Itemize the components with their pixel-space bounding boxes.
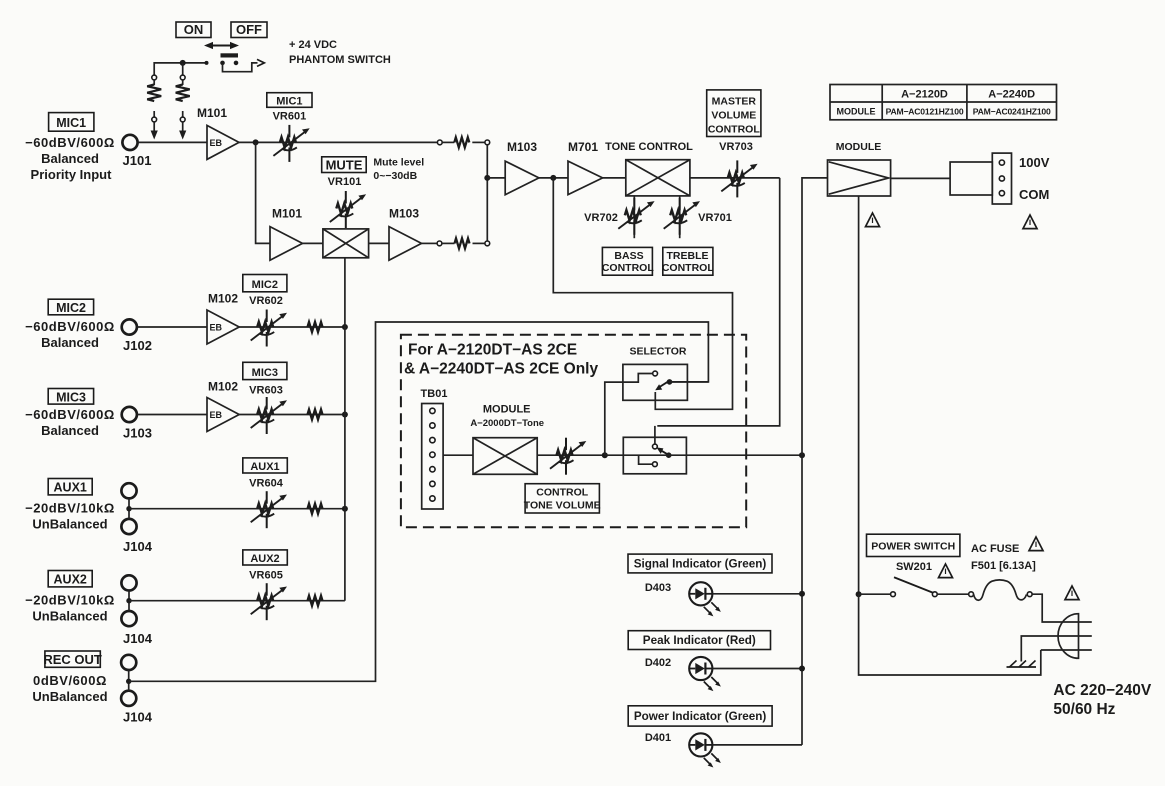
REC OUT spec text: [32, 673, 107, 704]
resistor phantom R1: [147, 75, 161, 122]
wire LED bus: [801, 455, 803, 745]
CONTROL TONE VOLUME label box: [524, 484, 601, 513]
AC voltage label: [1053, 682, 1151, 718]
wire tone stub VR701: [679, 196, 681, 238]
MASTER VOLUME CONTROL label box: [707, 90, 761, 137]
svg-text:D403: D403: [645, 582, 671, 594]
svg-text:J103: J103: [123, 426, 152, 441]
arrow phantom R2 to MIC1 line: [179, 122, 186, 140]
wire module input riser: [802, 178, 828, 455]
AC plug body: [1058, 614, 1079, 659]
wire MUTE to M103: [369, 242, 389, 244]
wire mix bus vertical: [344, 258, 346, 601]
selector upper switch box: [623, 364, 688, 400]
resistor AUX1: [308, 504, 323, 514]
phantom switch contact dots: [220, 61, 238, 66]
op-amp M103 lower: [389, 227, 422, 261]
Signal Indicator label box: [628, 554, 772, 573]
wire resistor R2 drop: [182, 63, 184, 77]
wire tone module to pot: [537, 454, 605, 456]
resistor lower rail: [455, 238, 470, 248]
svg-text:Priority Input: Priority Input: [31, 167, 113, 182]
svg-text:Power Indicator (Green): Power Indicator (Green): [634, 710, 767, 723]
svg-text:MIC3: MIC3: [252, 367, 278, 379]
selector upper arm: [655, 381, 668, 390]
junction AC line: [856, 591, 862, 597]
resistor top rail: [454, 137, 469, 147]
svg-text:AUX2: AUX2: [250, 553, 279, 565]
wire J103 to M102: [137, 414, 207, 416]
MUTE label box: [322, 157, 367, 173]
svg-text:A−2000DT−Tone: A−2000DT−Tone: [470, 418, 544, 429]
svg-text:CONTROL: CONTROL: [602, 262, 654, 274]
node top rail resistor left: [437, 140, 442, 145]
svg-text:−20dBV/10kΩ: −20dBV/10kΩ: [25, 593, 115, 608]
switch SW201 arm: [894, 577, 933, 593]
svg-text:Mute level: Mute level: [373, 157, 424, 169]
junction merge to M103: [484, 175, 490, 181]
speaker connector box: [950, 162, 992, 195]
selector upper contact A: [653, 371, 658, 376]
svg-text:TONE VOLUME: TONE VOLUME: [524, 499, 601, 511]
svg-text:VR703: VR703: [719, 141, 753, 153]
ON label box: [176, 22, 211, 38]
wire merge bar: [486, 145, 488, 241]
AUX1 spec text: [25, 501, 115, 532]
potentiometer VR601: [273, 125, 309, 162]
arrow phantom R1 to MIC1 line: [151, 122, 158, 140]
node switch left: [891, 592, 896, 597]
POWER SWITCH label box: [867, 534, 960, 556]
wire AC line segment 1: [859, 593, 891, 595]
svg-text:VR604: VR604: [249, 477, 284, 489]
AUX1 VR604 label box: [243, 458, 287, 473]
AUX1 label box: [48, 479, 92, 495]
op-amp M102 EB: [207, 310, 239, 344]
potentiometer VR603: [251, 397, 287, 434]
wire M101 node down to lower path: [256, 142, 270, 243]
svg-text:TONE CONTROL: TONE CONTROL: [605, 141, 693, 153]
wire top rail resistor out: [472, 141, 485, 143]
TREBLE CONTROL label box: [662, 247, 714, 275]
wire tone stub VR702: [633, 196, 635, 238]
svg-text:OFF: OFF: [236, 22, 262, 37]
phantom switch actuator wire with arrow: [223, 59, 265, 71]
wire merge to M103: [487, 177, 505, 179]
svg-text:VOLUME: VOLUME: [711, 109, 756, 121]
svg-text:AUX1: AUX1: [250, 461, 279, 473]
wire TB01 to tone module: [443, 454, 473, 456]
wire fuse to plug: [1032, 594, 1092, 622]
warning fuse: [1029, 537, 1043, 551]
svg-text:100V: 100V: [1019, 155, 1050, 170]
wire M103 to M701: [539, 177, 568, 179]
svg-text:M701: M701: [568, 140, 598, 154]
junction node after M101: [253, 139, 259, 145]
AUX2 spec text: [25, 593, 115, 624]
junction AUX1 bus: [342, 506, 348, 512]
svg-text:BASS: BASS: [614, 250, 643, 262]
terminal block TB01: [422, 404, 443, 510]
node fuse right: [1027, 592, 1032, 597]
svg-text:AC 220−240V: AC 220−240V: [1053, 682, 1151, 699]
selector lower contact A riser: [653, 426, 658, 449]
svg-text:PHANTOM SWITCH: PHANTOM SWITCH: [289, 54, 391, 66]
wire D401 to bus: [712, 744, 802, 746]
node switch right: [932, 592, 937, 597]
junction MIC3 bus: [342, 412, 348, 418]
wire AC line segment 2: [937, 593, 969, 595]
wire tone out to upper selector: [605, 374, 653, 456]
resistor MIC3: [308, 410, 323, 420]
svg-text:Balanced: Balanced: [41, 423, 99, 438]
op-amp M701: [568, 161, 603, 195]
plug prong bottom: [1041, 649, 1092, 651]
op-amp M103 main: [505, 161, 539, 195]
jack J104 aux1: [121, 483, 136, 534]
MIC1 spec text: [25, 135, 115, 182]
potentiometer VR701: [664, 198, 700, 235]
wire J101 to M101: [138, 141, 207, 143]
svg-text:VR702: VR702: [584, 212, 618, 224]
selector lower pivot: [666, 452, 672, 458]
svg-text:MODULE: MODULE: [483, 404, 531, 416]
terminal dot phantom wire: [205, 61, 209, 65]
warning module: [866, 213, 880, 227]
svg-text:ON: ON: [184, 22, 204, 37]
svg-text:AUX2: AUX2: [54, 573, 87, 587]
MIC1 VR601 label box: [267, 93, 312, 108]
svg-text:MIC3: MIC3: [56, 390, 86, 404]
warning output: [1023, 215, 1037, 229]
MIC2 label box: [48, 299, 93, 315]
REC OUT label box: [43, 651, 102, 667]
svg-text:M102: M102: [208, 380, 238, 394]
wire AUX1 to bus: [129, 508, 345, 510]
OFF label box: [231, 22, 267, 38]
wire main out through selector: [605, 454, 802, 456]
svg-text:REC OUT: REC OUT: [43, 652, 102, 667]
svg-text:MIC1: MIC1: [56, 116, 86, 130]
svg-text:J101: J101: [123, 153, 152, 168]
svg-text:PAM−AC0241HZ100: PAM−AC0241HZ100: [973, 107, 1051, 117]
LED D403: [689, 582, 721, 616]
plug prong mid: [1021, 636, 1092, 662]
potentiometer tone volume: [550, 438, 586, 475]
svg-text:AC FUSE: AC FUSE: [971, 543, 1019, 555]
wire module ground drop: [858, 196, 860, 594]
warning plug: [1065, 586, 1079, 600]
svg-text:50/60 Hz: 50/60 Hz: [1053, 701, 1115, 718]
svg-text:F501 [6.13A]: F501 [6.13A]: [971, 560, 1036, 572]
jack J104 rec: [121, 655, 136, 706]
potentiometer VR101: [330, 191, 366, 228]
svg-text:SW201: SW201: [896, 561, 932, 573]
svg-text:CONTROL: CONTROL: [708, 123, 760, 135]
svg-text:EB: EB: [210, 323, 223, 333]
wire M102 mic3 out to bus: [239, 414, 345, 416]
resistor AUX2: [308, 596, 323, 606]
selector lower contact B: [653, 462, 658, 467]
svg-text:CONTROL: CONTROL: [662, 262, 714, 274]
junction node M701 input: [550, 175, 556, 181]
svg-text:MUTE: MUTE: [326, 158, 363, 173]
wire AC return: [859, 594, 1041, 675]
LED D401: [689, 733, 721, 767]
svg-text:VR101: VR101: [328, 176, 362, 188]
BASS CONTROL label box: [602, 247, 654, 275]
svg-text:−20dBV/10kΩ: −20dBV/10kΩ: [25, 501, 115, 516]
fuse F501: [974, 580, 1027, 600]
svg-text:A−2120D: A−2120D: [901, 89, 948, 101]
svg-text:UnBalanced: UnBalanced: [32, 517, 107, 532]
potentiometer VR602: [251, 310, 287, 347]
warning sw201: [939, 564, 953, 578]
selector lower switch box: [623, 437, 686, 474]
junction D402 bus: [799, 666, 805, 672]
wire M701 to tone control: [603, 177, 626, 179]
svg-text:J104: J104: [123, 631, 153, 646]
svg-text:UnBalanced: UnBalanced: [32, 609, 107, 624]
Mute level note: [373, 157, 424, 183]
potentiometer VR703: [721, 160, 757, 197]
MIC3 spec text: [25, 407, 115, 438]
wire M102 out to bus: [239, 326, 345, 328]
selector upper pivot: [667, 379, 673, 385]
wire M701 junction loop to selector contact: [553, 178, 732, 409]
op-amp M101 EB preamp: [207, 125, 239, 159]
wire AUX2 to bus: [129, 600, 345, 602]
Power Indicator label box: [628, 706, 772, 726]
svg-text:PAM−AC0121HZ100: PAM−AC0121HZ100: [886, 107, 964, 117]
module A-2000DT-Tone box: [473, 438, 537, 475]
svg-text:−60dBV/600Ω: −60dBV/600Ω: [25, 407, 115, 422]
svg-text:VR603: VR603: [249, 385, 283, 397]
svg-text:MIC2: MIC2: [56, 301, 86, 315]
wire REC OUT to selector: [129, 322, 709, 681]
wire VR703 down to selector: [657, 178, 779, 426]
wire tone control to VR703: [690, 177, 780, 179]
power module box: [828, 160, 891, 196]
model table: [830, 85, 1057, 120]
svg-text:MASTER: MASTER: [712, 95, 757, 107]
double arrow between ON and OFF: [204, 42, 239, 49]
wire M101 out to VR601 and beyond: [239, 141, 438, 143]
svg-text:MODULE: MODULE: [836, 141, 882, 153]
selector lower arm: [656, 447, 667, 454]
node fuse left: [969, 592, 974, 597]
svg-text:EB: EB: [210, 138, 223, 148]
wire module to speaker connector: [891, 177, 951, 179]
LED D402: [689, 657, 721, 691]
wire lower rail: [442, 242, 455, 244]
svg-text:−60dBV/600Ω: −60dBV/600Ω: [25, 135, 115, 150]
svg-text:Balanced: Balanced: [41, 335, 99, 350]
ground symbol: [1007, 661, 1037, 668]
wire M103 out: [422, 242, 438, 244]
AUX2 label box: [48, 571, 92, 587]
wire top rail into resistor: [442, 141, 454, 143]
junction MIC2 bus: [342, 324, 348, 330]
svg-text:A−2240D: A−2240D: [988, 89, 1035, 101]
svg-text:+ 24 VDC: + 24 VDC: [289, 39, 337, 51]
wire phantom feed: [154, 63, 205, 77]
wire D402 to bus: [712, 668, 802, 670]
jack J103: [122, 407, 137, 422]
TONE CONTROL attenuator box: [626, 160, 690, 196]
op-amp M102 EB mic3: [207, 398, 239, 432]
svg-text:CONTROL: CONTROL: [536, 487, 588, 499]
junction phantom wire: [180, 60, 186, 66]
potentiometer VR605: [251, 583, 287, 620]
svg-text:M103: M103: [389, 207, 419, 221]
wire upper pivot to REC line: [670, 381, 709, 383]
Peak Indicator label box: [628, 631, 770, 650]
svg-text:SELECTOR: SELECTOR: [630, 346, 687, 358]
svg-text:Peak Indicator (Red): Peak Indicator (Red): [643, 634, 756, 647]
svg-text:M102: M102: [208, 292, 238, 306]
svg-text:M101: M101: [197, 106, 227, 120]
wire D403 to bus: [712, 593, 802, 595]
node top rail resistor right: [485, 140, 490, 145]
svg-text:VR701: VR701: [698, 212, 732, 224]
potentiometer VR604: [251, 491, 287, 528]
svg-text:POWER SWITCH: POWER SWITCH: [871, 540, 955, 552]
svg-text:Balanced: Balanced: [41, 151, 99, 166]
svg-text:J104: J104: [123, 539, 153, 554]
wire lower rail out: [473, 242, 486, 244]
wire lower selector branch: [639, 455, 653, 464]
jack J104 aux2: [121, 575, 136, 626]
svg-text:AUX1: AUX1: [54, 481, 87, 495]
svg-text:J104: J104: [123, 710, 153, 725]
wire M101 to MUTE attenuator: [303, 242, 323, 244]
svg-text:MODULE: MODULE: [837, 107, 876, 117]
svg-text:MIC2: MIC2: [252, 279, 278, 291]
jack J101: [122, 135, 137, 150]
svg-text:VR605: VR605: [249, 569, 283, 581]
junction tone out: [602, 452, 608, 458]
op-amp M101 lower: [270, 227, 303, 261]
svg-text:For A−2120DT−AS 2CE: For A−2120DT−AS 2CE: [408, 342, 577, 359]
resistor phantom R2: [176, 75, 190, 122]
phantom switch SW bar: [221, 53, 239, 57]
svg-text:TB01: TB01: [421, 388, 448, 400]
svg-text:MIC1: MIC1: [276, 95, 302, 107]
svg-text:TREBLE: TREBLE: [667, 250, 709, 262]
svg-text:VR602: VR602: [249, 295, 283, 307]
svg-text:& A−2240DT−AS 2CE Only: & A−2240DT−AS 2CE Only: [404, 361, 598, 378]
MIC1 label box: [49, 113, 94, 132]
junction main out: [799, 452, 805, 458]
potentiometer VR702: [618, 198, 654, 235]
output terminal block: [992, 153, 1011, 204]
svg-text:Signal Indicator (Green): Signal Indicator (Green): [634, 558, 767, 571]
svg-text:D401: D401: [645, 732, 671, 744]
MIC3 VR603 label box: [243, 362, 287, 379]
svg-text:J102: J102: [123, 338, 152, 353]
svg-text:0~−30dB: 0~−30dB: [373, 170, 417, 182]
node lower rail resistor left: [437, 241, 442, 246]
svg-text:M101: M101: [272, 207, 302, 221]
svg-text:COM: COM: [1019, 187, 1049, 202]
svg-text:VR601: VR601: [273, 111, 307, 123]
svg-text:D402: D402: [645, 657, 671, 669]
wire J102 to M102: [137, 326, 207, 328]
node lower rail resistor right: [485, 241, 490, 246]
AUX2 VR605 label box: [243, 550, 287, 565]
dashed option box: [401, 335, 746, 527]
MUTE attenuator box: [323, 229, 369, 258]
svg-text:0dBV/600Ω: 0dBV/600Ω: [33, 673, 107, 688]
svg-text:−60dBV/600Ω: −60dBV/600Ω: [25, 319, 115, 334]
jack J102: [122, 319, 137, 334]
svg-text:EB: EB: [210, 410, 223, 420]
MODULE tone label: [470, 404, 544, 430]
MIC2 spec text: [25, 319, 115, 350]
MIC2 VR602 label box: [243, 275, 287, 292]
resistor MIC2: [308, 322, 323, 332]
junction D403 bus: [799, 591, 805, 597]
MIC3 label box: [48, 389, 93, 405]
svg-text:M103: M103: [507, 140, 537, 154]
svg-text:UnBalanced: UnBalanced: [32, 689, 107, 704]
